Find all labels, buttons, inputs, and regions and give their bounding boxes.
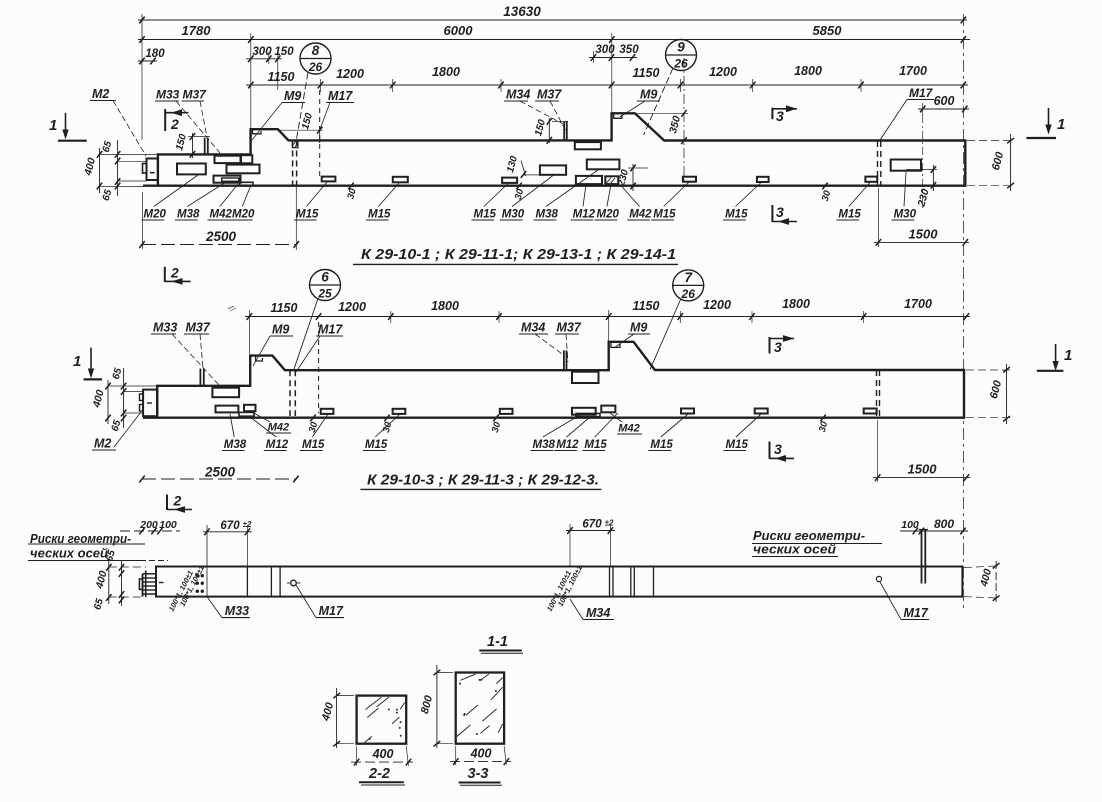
label M15 bottom 5 (723, 183, 761, 221)
dimension 300 350 at corbel 2 (589, 33, 639, 112)
svg-text:1700: 1700 (904, 297, 932, 311)
dimension 30 v2 b (377, 415, 398, 434)
dimension 150 at M34 (533, 118, 568, 144)
label M37 view 2 (184, 321, 211, 369)
dimension row 1150 1200 1800 / 1150 1200 1800 1700 view 1 (246, 64, 968, 92)
svg-text:М9: М9 (640, 88, 657, 102)
svg-text:3: 3 (774, 441, 782, 457)
plate M15 v2 c (500, 409, 513, 414)
svg-text:М42: М42 (210, 209, 233, 221)
section label 3-3 (459, 766, 502, 785)
svg-text:М15: М15 (474, 209, 497, 221)
label M2 view 2 (92, 412, 141, 451)
rotated 100 labels left plan (167, 564, 206, 613)
plate M15 e (757, 177, 769, 182)
plate M15 v2 f (864, 409, 877, 414)
svg-text:М42: М42 (618, 423, 639, 435)
label M17 view 3 (296, 585, 344, 618)
plate M38 left view 1 (177, 164, 206, 175)
svg-text:150: 150 (300, 111, 315, 130)
svg-text:М17: М17 (328, 89, 353, 103)
circled mark 6/25 (294, 270, 341, 370)
circled mark 7/26 (650, 270, 704, 370)
svg-text:3: 3 (776, 108, 784, 124)
title K29-10-1 series (353, 246, 678, 264)
svg-text:100: 100 (159, 519, 177, 531)
label M17 top right (880, 86, 934, 140)
plate cluster left view 1 (214, 155, 260, 185)
label M42 v2 label 1 (252, 412, 291, 434)
section mark 3 top view 1 (772, 105, 797, 124)
svg-text:М17: М17 (318, 323, 343, 337)
svg-text:М38: М38 (533, 439, 556, 451)
label M15 v2 bottom 2 (363, 414, 400, 451)
svg-text:1500: 1500 (909, 227, 939, 242)
dimension 300 150 at corbel 1 (246, 33, 294, 128)
plate M34 view 2 (572, 372, 599, 383)
plan end plate teeth (139, 571, 156, 598)
svg-text:1780: 1780 (182, 23, 212, 38)
plate M15 v2 d (681, 409, 694, 414)
dimension 150 left cluster view 1 (174, 132, 210, 158)
svg-text:М42: М42 (629, 209, 652, 221)
svg-text:2: 2 (173, 493, 182, 509)
end plate view 1 (143, 159, 158, 181)
dimension 1500 view 1 (874, 188, 969, 247)
section mark 1 right view 2 (1037, 344, 1072, 371)
svg-text:1200: 1200 (709, 65, 737, 79)
hidden M17 rod right view 1 (878, 141, 881, 186)
svg-text:3: 3 (774, 339, 782, 355)
column outline view 2 (143, 342, 964, 418)
label M9 view 2 (253, 323, 293, 367)
label M15 bottom 3 (472, 184, 509, 221)
svg-text:26: 26 (681, 287, 696, 301)
label M20 bottom 3 (595, 185, 620, 221)
stray mark above view 2 (228, 306, 236, 311)
svg-text:1-1: 1-1 (487, 634, 508, 650)
section mark 3 top view 2 (770, 335, 795, 355)
svg-text:1: 1 (49, 117, 57, 134)
circled mark 8/26 (297, 43, 332, 139)
label M37 view 1 (182, 88, 208, 138)
svg-text:30: 30 (513, 187, 527, 201)
label M38 bottom 1 (175, 182, 226, 221)
label M33 view 1 (155, 88, 220, 154)
svg-text:65: 65 (111, 367, 125, 381)
svg-text:400: 400 (372, 747, 394, 761)
svg-text:300: 300 (595, 44, 615, 56)
hidden lines below corbel 1 view 2 (290, 370, 295, 416)
svg-text:М30: М30 (502, 209, 525, 221)
svg-text:6000: 6000 (444, 23, 474, 38)
plate M15 d (683, 177, 696, 182)
dimension 130 view 1 (505, 154, 542, 177)
dimension 600 right view 2 (966, 364, 1010, 424)
dimension 200 100 view 3 (120, 519, 180, 534)
svg-text:670: 670 (220, 520, 240, 532)
svg-text:М9: М9 (272, 323, 289, 337)
svg-text:К 29-10-3 ; К 29-11-3 ; К 29: К 29-10-3 ; К 29-11-3 ; К 29-12-3. (367, 472, 599, 489)
label M12 v2 bottom 2 (554, 417, 590, 451)
svg-text:М12: М12 (266, 439, 289, 451)
svg-text:ческих осей: ческих осей (30, 546, 108, 561)
svg-text:65: 65 (92, 597, 106, 611)
svg-text:1: 1 (73, 353, 81, 370)
hidden lines below corbel 1 (293, 141, 297, 186)
label M15 bottom 4 (651, 182, 689, 221)
svg-text:1200: 1200 (338, 300, 366, 314)
dimension 350 corbel 2 view 1 (637, 58, 688, 186)
svg-text:130: 130 (505, 154, 520, 173)
svg-text:М15: М15 (302, 439, 325, 451)
plate M30 right view 1 (891, 160, 921, 171)
svg-text:30: 30 (381, 420, 395, 434)
section mark 2 view 3 (167, 493, 192, 513)
svg-text:400: 400 (93, 570, 109, 591)
label M34 view 1 (504, 88, 563, 125)
dimension 1500 view 2 (873, 420, 970, 482)
label M15 bottom 6 (836, 183, 870, 221)
label M15 bottom 1 (294, 182, 327, 221)
svg-text:5850: 5850 (813, 23, 843, 38)
svg-text:М15: М15 (726, 439, 749, 451)
svg-text:1150: 1150 (268, 70, 295, 84)
svg-text:М15: М15 (296, 209, 319, 221)
svg-text:26: 26 (673, 57, 688, 71)
dimension 180 (138, 44, 165, 140)
plate M30 center view 1 (540, 165, 566, 174)
plate M38 under top edge (575, 142, 601, 149)
svg-text:М2: М2 (92, 87, 109, 101)
svg-text:2500: 2500 (204, 465, 236, 480)
M9 step view 2 corbel 1 (256, 356, 263, 361)
label M33 view 2 (151, 321, 219, 386)
svg-text:2: 2 (170, 116, 179, 132)
dimension 30 b view 1 (814, 183, 836, 203)
M9 step corbel 2 (614, 113, 622, 118)
anchor M34 view 1 (564, 121, 567, 140)
svg-text:К 29-10-1 ; К 29-11-1; К 29-: К 29-10-1 ; К 29-11-1; К 29-13-1 ; К 29-… (361, 246, 676, 263)
right end axis line (962, 14, 964, 612)
plate M15 v2 b (393, 409, 406, 414)
svg-text:230: 230 (915, 188, 931, 209)
label M9b view 1 (620, 88, 660, 118)
plate M38 center view 1 (587, 160, 620, 170)
svg-text:180: 180 (145, 48, 165, 60)
svg-text:М15: М15 (584, 439, 607, 451)
svg-text:25: 25 (317, 287, 332, 301)
svg-text:М20: М20 (144, 209, 167, 221)
rotated 100 labels center plan (545, 564, 584, 613)
dimension 30 v2 c (486, 415, 507, 434)
section mark 2 view 2 (165, 265, 191, 285)
plate M38 v2 left (216, 406, 239, 413)
section mark 3 bottom view 1 (772, 204, 797, 225)
svg-text:М20: М20 (232, 209, 255, 221)
svg-text:3: 3 (776, 204, 784, 220)
plate M12 center view 1 (576, 176, 602, 184)
plate M15 a (322, 177, 336, 182)
svg-text:М33: М33 (156, 88, 180, 102)
plan vertical line f (653, 567, 655, 597)
svg-text:600: 600 (988, 378, 1005, 400)
section 2-2 square (357, 696, 407, 744)
dimension 30 a view 1 (340, 183, 362, 201)
plate M33 view 2 (212, 388, 239, 398)
label M33 view 3 (207, 597, 250, 618)
svg-text:М38: М38 (177, 209, 200, 221)
svg-text:1800: 1800 (782, 297, 810, 311)
label M38 v2 bottom 2 (531, 415, 581, 451)
label M17 view 1 (321, 89, 355, 128)
dimension 150 corbel 1 (277, 111, 323, 143)
svg-text:М2: М2 (94, 437, 111, 451)
svg-text:400: 400 (320, 700, 337, 723)
svg-text:1: 1 (1064, 347, 1072, 364)
svg-text:30: 30 (345, 187, 359, 201)
svg-text:300: 300 (252, 46, 272, 58)
anchor M37 view 1 (205, 138, 208, 155)
dimension 100 800 view 3 right (900, 517, 968, 534)
svg-text:200: 200 (139, 519, 158, 531)
svg-text:1800: 1800 (432, 65, 460, 79)
label M34 view 3 (570, 599, 614, 620)
svg-text:М42: М42 (268, 422, 289, 434)
dimension 400 right view 3 (964, 561, 1000, 603)
svg-text:М15: М15 (365, 439, 388, 451)
label M15 v2 bottom 4 (648, 414, 688, 451)
svg-text:М34: М34 (521, 321, 545, 335)
label M12 v2 bottom 1 (250, 417, 289, 451)
svg-text:М33: М33 (225, 604, 249, 618)
svg-text:350: 350 (619, 44, 639, 56)
svg-text:1800: 1800 (431, 299, 459, 313)
label M42 v2 label 2 (610, 413, 642, 435)
svg-text:400: 400 (470, 747, 492, 761)
end plate view 2 (140, 390, 158, 417)
anchor M37 view 2 (200, 369, 203, 386)
section mark 1 right view 1 (1026, 108, 1065, 138)
dimension 30 v2 d (813, 415, 834, 434)
plate M15 v2 e (755, 409, 768, 414)
svg-text:1200: 1200 (336, 67, 364, 81)
plate M42 v2 center (601, 406, 615, 413)
label M37b view 2 (555, 321, 582, 363)
label M20 bottom 2 (230, 185, 255, 221)
M17 hole view 3 right (876, 576, 881, 581)
plate M20 hatched view 1 (605, 176, 618, 184)
svg-text:800: 800 (934, 517, 954, 531)
svg-text:М30: М30 (894, 209, 917, 221)
M9 step view 2 corbel 2 (611, 342, 620, 348)
section title 1-1 (479, 634, 523, 653)
label M34 view 2 (519, 321, 564, 356)
plan vertical lines c (271, 567, 280, 597)
riski text left (28, 531, 168, 561)
circled mark 9/26 (644, 40, 697, 136)
label M42 bottom 2 (620, 185, 652, 221)
section 3-3 rect (456, 673, 504, 744)
dimension 670 view 3 center (566, 519, 615, 567)
M9 step corbel 1 (253, 129, 262, 134)
M17 hole view 3 left (287, 580, 301, 586)
svg-text:1500: 1500 (908, 462, 938, 477)
svg-text:М37: М37 (537, 88, 562, 102)
svg-text:8: 8 (312, 43, 320, 58)
svg-text:150: 150 (533, 118, 548, 137)
svg-text:7: 7 (684, 270, 693, 285)
svg-text:400: 400 (82, 157, 98, 178)
section 2-2 vdim 400 (320, 688, 354, 748)
svg-text:26: 26 (308, 60, 323, 74)
plate M12 v2 left (239, 412, 254, 416)
section mark 2 view 1 (165, 109, 188, 132)
svg-text:1700: 1700 (899, 64, 927, 78)
svg-text:670: 670 (582, 519, 602, 531)
section mark 1 left view 2 (73, 348, 102, 380)
svg-text:2: 2 (170, 265, 179, 281)
plan vertical lines e (631, 567, 635, 597)
label M30 bottom 2 (892, 172, 917, 221)
section 3-3 vdim 800 (419, 665, 453, 748)
label M9 view 1 (252, 89, 305, 140)
svg-text:400: 400 (90, 389, 106, 410)
label M15 v2 bottom 5 (724, 414, 762, 451)
svg-text:М38: М38 (224, 439, 247, 451)
dimension 30 c view 1 (508, 183, 530, 201)
plan vertical line b (246, 567, 248, 597)
svg-text:М38: М38 (536, 209, 559, 221)
section mark 3 bottom view 2 (770, 441, 795, 462)
svg-text:9: 9 (677, 40, 685, 55)
svg-text:М12: М12 (556, 439, 579, 451)
svg-text:М15: М15 (368, 209, 391, 221)
plate M15 c (502, 178, 517, 183)
svg-text:М12: М12 (573, 209, 596, 221)
svg-text:2-2: 2-2 (368, 766, 390, 782)
section mark 1 left view 1 (49, 113, 87, 141)
label M17 view 2 (296, 323, 343, 373)
M17 rod view 2 (318, 322, 320, 413)
label M17b view 3 (880, 582, 929, 620)
plate M42 v2 left (244, 405, 256, 411)
svg-text:М37: М37 (186, 321, 211, 335)
svg-text:6: 6 (321, 270, 329, 285)
dimension 65 400 65 left view 3 (92, 549, 146, 612)
plate M15 f (865, 177, 877, 182)
plate M15 b (393, 177, 408, 183)
svg-text:2500: 2500 (205, 229, 237, 244)
svg-text:М17: М17 (319, 604, 344, 618)
svg-text:30: 30 (820, 189, 834, 203)
plate M38 v2 center (572, 408, 596, 415)
svg-text:М15: М15 (653, 209, 676, 221)
dimension 230 center view 1 (616, 164, 648, 191)
dimension 65 400 65 left view 2 (90, 367, 157, 433)
svg-text:М9: М9 (630, 321, 647, 335)
svg-text:М34: М34 (586, 606, 610, 620)
label M37b view 1 (535, 88, 567, 134)
label M20 bottom 1 (142, 175, 199, 221)
plate M12 v2 center (576, 413, 600, 416)
label M30 bottom 1 (500, 176, 553, 221)
label M42 bottom 1 (208, 184, 239, 221)
svg-text:100: 100 (901, 519, 919, 531)
hidden rod right view 2 (877, 370, 880, 417)
section 2-2 hdim 400 (351, 746, 413, 766)
svg-text:М15: М15 (650, 439, 673, 451)
label M15 v2 bottom 3 (582, 413, 618, 451)
svg-text:1150: 1150 (633, 66, 660, 80)
svg-text:1200: 1200 (703, 298, 731, 312)
M17 rod view 1 (319, 90, 321, 176)
svg-text:М37: М37 (183, 88, 208, 102)
dimension 13630 overall (138, 4, 967, 44)
plan vertical lines d (610, 567, 614, 597)
label M38 bottom 2 (534, 170, 599, 221)
svg-text:65: 65 (101, 140, 115, 154)
svg-text:М17: М17 (909, 86, 934, 100)
riski text right (752, 528, 882, 557)
svg-text:1: 1 (1057, 116, 1065, 133)
svg-text:150: 150 (274, 46, 294, 58)
svg-text:М15: М15 (725, 209, 748, 221)
svg-text:М9: М9 (284, 89, 301, 103)
svg-text:30: 30 (307, 420, 321, 434)
svg-text:13630: 13630 (503, 4, 541, 19)
plan outline view 3 (156, 567, 962, 597)
anchor M34 view 2 (564, 350, 567, 370)
svg-text:30: 30 (817, 420, 831, 434)
svg-text:М15: М15 (838, 209, 861, 221)
dimension 2500 view 2 (139, 465, 298, 483)
svg-text:М34: М34 (506, 88, 530, 102)
dimension 30 v2 a (303, 415, 324, 434)
dimension 600 top right (918, 94, 969, 208)
svg-text:М37: М37 (557, 321, 582, 335)
dimension 600 right view 1 (967, 134, 1014, 191)
label M15 v2 bottom 1 (300, 414, 328, 451)
plan inner tick (159, 582, 164, 584)
dimension 670 view 3 left (203, 520, 252, 598)
svg-text:1150: 1150 (271, 301, 298, 315)
label M2 view 1 (90, 87, 146, 156)
svg-text:±2: ±2 (605, 519, 614, 528)
label M38 v2 bottom 1 (222, 414, 247, 451)
svg-text:М33: М33 (153, 321, 177, 335)
column outline view 1 (143, 113, 965, 186)
section 3-3 hdim 400 (450, 746, 511, 765)
label M12 bottom (571, 185, 596, 221)
label M9b view 2 (614, 321, 650, 349)
svg-text:3-3: 3-3 (468, 766, 489, 782)
dimension 65 400 65 left view 1 (82, 140, 158, 203)
plate M15 v2 a (321, 409, 334, 414)
dimension 230 right view 1 (906, 165, 937, 209)
title K29-10-3 series (360, 472, 601, 490)
hatched box M9 corbel 1 (292, 140, 298, 147)
svg-text:150: 150 (174, 132, 189, 151)
label M15 bottom 2 (366, 183, 399, 221)
svg-text:М20: М20 (597, 209, 620, 221)
riski dots (196, 574, 204, 593)
M17 rod view 3 (919, 530, 928, 584)
svg-text:30: 30 (490, 420, 504, 434)
svg-text:800: 800 (419, 693, 436, 715)
svg-text:65: 65 (101, 188, 115, 202)
dimension row view 2 (245, 297, 970, 354)
